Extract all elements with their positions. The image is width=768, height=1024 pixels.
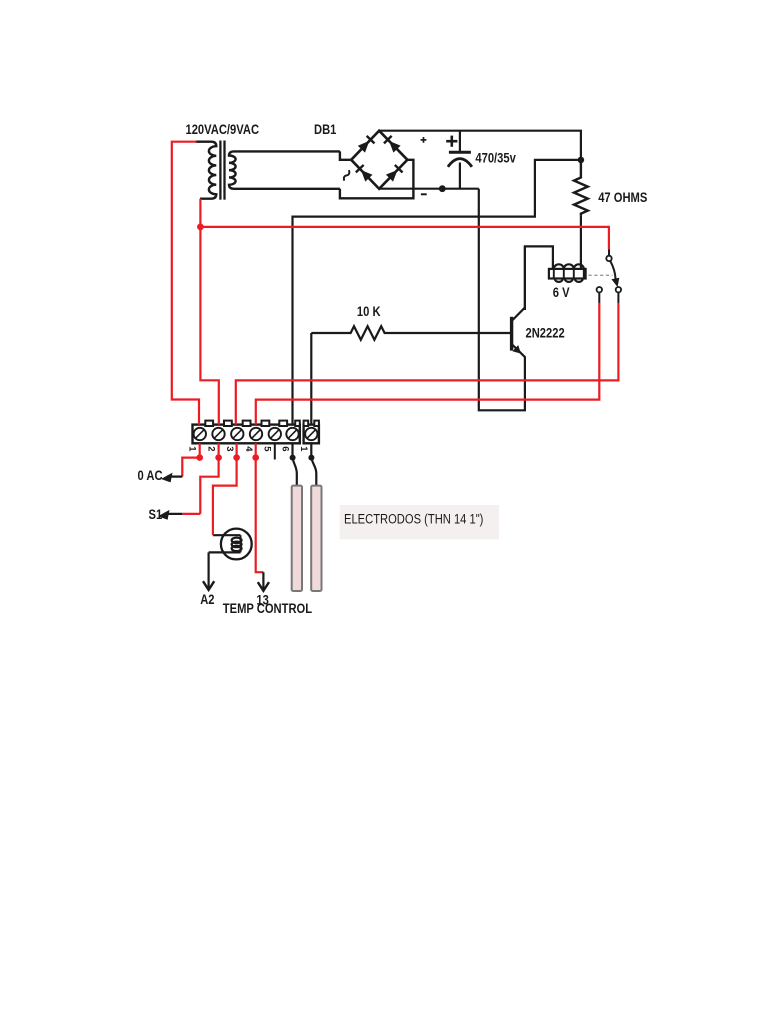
wire resistor to relay coil <box>580 215 582 269</box>
svg-text:1: 1 <box>298 446 309 452</box>
svg-text:ELECTRODOS (THN 14 1"): ELECTRODOS (THN 14 1") <box>344 511 483 526</box>
red wire primary-bottom down <box>200 199 218 425</box>
terminal 7 dot <box>308 455 314 461</box>
transistor Q1 base bar <box>510 317 513 351</box>
bridge + sign <box>421 137 427 143</box>
svg-text:3: 3 <box>224 446 235 451</box>
capacitor + sign <box>446 136 457 147</box>
svg-text:TEMP CONTROL: TEMP CONTROL <box>223 601 312 616</box>
label 120VAC/9VAC <box>186 122 260 137</box>
13 arrow <box>258 572 269 591</box>
wire terminal6 to left electrode <box>293 443 297 487</box>
terminal block TB2 body <box>304 421 319 444</box>
label TEMP CONTROL <box>223 601 312 616</box>
temp-control coil symbol <box>221 529 252 560</box>
junction dot +rail <box>578 157 585 164</box>
diode D3 (B to L) <box>356 165 373 182</box>
label ELECTRODOS background <box>340 505 499 540</box>
transistor Q1 emitter <box>512 344 525 357</box>
label 0 AC <box>138 468 163 483</box>
svg-text:DB1: DB1 <box>314 122 336 137</box>
bridge rectifier DB1 diamond <box>351 131 407 189</box>
red dot t4 <box>252 454 259 461</box>
diode D2 (R to T) <box>384 136 401 153</box>
red dot t1 <box>196 454 203 461</box>
wire bridge bottom (- rail) <box>379 188 479 190</box>
red tail terminal1 <box>182 443 199 476</box>
electrode right <box>311 486 321 591</box>
label 13 <box>256 592 268 607</box>
switch common stub <box>608 249 610 256</box>
wire secondary-bottom to bridge right vertex <box>340 160 414 199</box>
svg-text:1: 1 <box>187 446 198 452</box>
junction dot on - rail <box>439 185 446 192</box>
svg-text:10 K: 10 K <box>357 304 381 319</box>
label 47 OHMS <box>598 190 647 205</box>
wire collector to relay coil left <box>525 246 553 310</box>
switch blade arrowhead <box>611 278 619 287</box>
svg-text:S1: S1 <box>149 507 163 522</box>
red tail terminal3 <box>213 443 237 535</box>
red wire primary-top to terminal 1 <box>172 142 199 425</box>
svg-text:470/35v: 470/35v <box>475 150 515 165</box>
red S1 link <box>182 513 200 515</box>
switch contact left stub <box>598 292 600 303</box>
AC sine symbol <box>342 170 351 181</box>
transformer T1 secondary winding <box>229 151 340 188</box>
resistor R2 10K and base wire <box>311 326 510 340</box>
transistor Q1 emitter arrowhead <box>512 345 521 354</box>
terminal screws <box>194 428 318 440</box>
diode D1 (L to T) <box>358 136 375 153</box>
svg-text:2N2222: 2N2222 <box>526 325 565 340</box>
label ELECTRODOS <box>344 511 483 526</box>
wire terminal7 to right electrode <box>311 443 316 487</box>
wire terminal7 to base resistor <box>310 333 312 425</box>
switch contact left (NO) <box>597 287 602 292</box>
wire bridge top to +rail <box>379 131 581 160</box>
transistor Q1 collector <box>512 246 525 321</box>
red junction dot <box>197 224 204 231</box>
svg-text:6 V: 6 V <box>553 285 570 300</box>
transformer T1 core <box>220 141 224 200</box>
bridge - sign <box>421 193 427 195</box>
label A2 <box>200 592 214 607</box>
wire secondary-top to bridge left vertex <box>340 151 351 159</box>
terminal 5 stub <box>274 443 276 459</box>
label 470/35v <box>475 150 515 165</box>
electrode left <box>292 486 302 591</box>
svg-text:5: 5 <box>262 446 273 452</box>
capacitor C1 bottom lead <box>459 163 461 189</box>
capacitor C1 top lead <box>459 131 461 151</box>
red wire to switch common <box>200 227 609 250</box>
diode D4 (B to R) <box>386 165 403 182</box>
switch blade <box>610 261 615 280</box>
coil top lead <box>213 534 241 536</box>
red wire switch NO to terminal 4 <box>256 303 600 425</box>
wire - rail down to emitter <box>479 189 525 411</box>
red tail terminal4 <box>256 443 264 572</box>
svg-text:4: 4 <box>243 446 254 452</box>
relay coil K1 6V <box>549 264 586 282</box>
label 2N2222 <box>526 325 565 340</box>
capacitor C1 bottom plate (curved) <box>448 159 472 167</box>
red wire switch NC to terminal 3 <box>236 303 619 425</box>
label 10 K <box>357 304 381 319</box>
red dot t3 <box>233 454 240 461</box>
terminal numbers <box>187 446 310 452</box>
svg-text:0 AC: 0 AC <box>138 468 163 483</box>
svg-text:6: 6 <box>279 446 290 451</box>
label S1 <box>149 507 163 522</box>
label DB1 <box>314 122 336 137</box>
red tail terminal2 <box>200 443 218 514</box>
S1 arrow <box>158 510 182 520</box>
switch contact right (NC) <box>616 287 621 292</box>
wire +rail to terminal 6 <box>293 160 581 425</box>
capacitor C1 top plate <box>449 151 471 154</box>
red dot t2 <box>215 454 222 461</box>
switch contact right stub <box>617 292 619 303</box>
switch common terminal <box>606 256 611 261</box>
svg-text:A2: A2 <box>200 592 214 607</box>
terminal 6 dot <box>290 455 296 461</box>
svg-text:47 OHMS: 47 OHMS <box>598 190 647 205</box>
0 AC arrow <box>161 473 182 483</box>
label 6 V <box>553 285 570 300</box>
svg-text:120VAC/9VAC: 120VAC/9VAC <box>186 122 260 137</box>
coil bottom lead <box>209 551 241 553</box>
terminal block TB1 body <box>193 421 300 444</box>
svg-text:2: 2 <box>205 446 216 451</box>
resistor R1 47 OHMS <box>574 160 588 216</box>
relay actuation dashed link <box>589 274 613 276</box>
A2 arrow <box>203 552 214 590</box>
transformer T1 primary winding <box>196 142 217 199</box>
